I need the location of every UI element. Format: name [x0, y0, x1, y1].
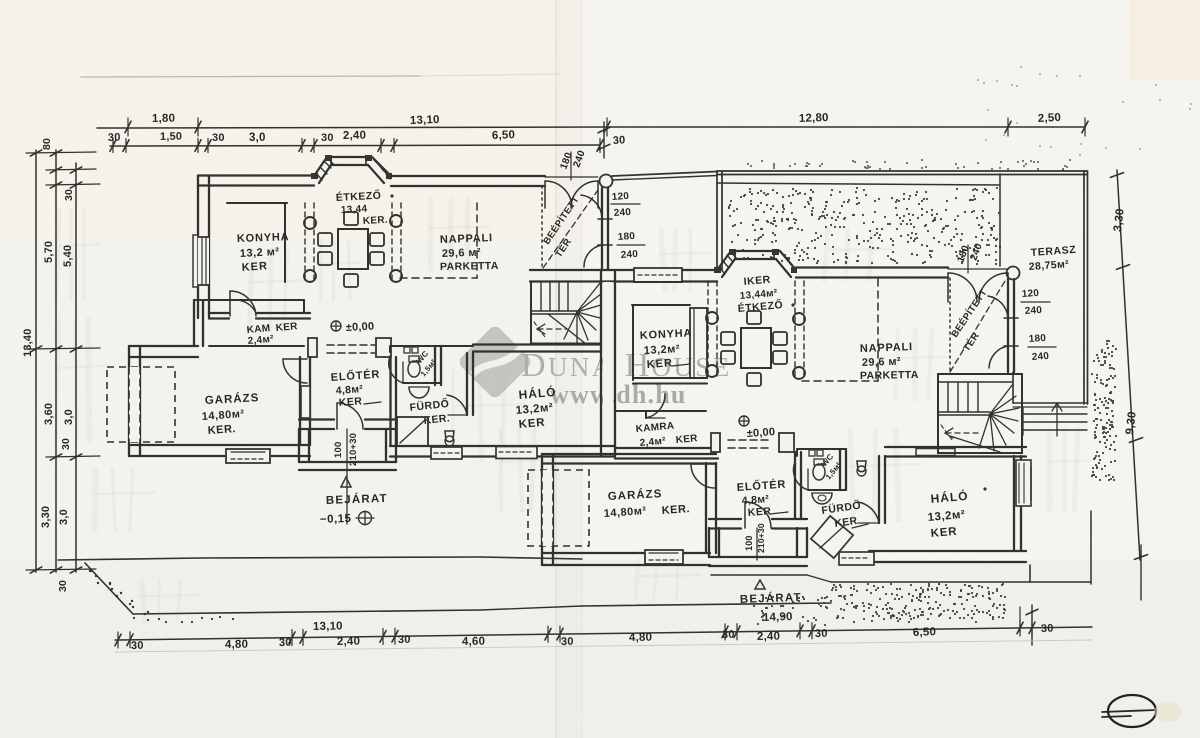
left unit conservatory dotted line	[541, 186, 543, 268]
plot boundary diagonal	[85, 563, 133, 614]
right unit wc fixtures	[809, 450, 815, 456]
left unit west outer wall	[197, 176, 199, 319]
right unit corridor dashed lines	[707, 281, 709, 379]
right unit conservatory door arcs	[988, 296, 1008, 318]
left unit dining table	[338, 229, 368, 269]
left unit kamra door arc	[233, 300, 256, 313]
left unit hall entry door	[336, 403, 338, 429]
right unit top wall east of bay	[796, 266, 948, 268]
right unit bedroom east window	[1016, 460, 1031, 506]
terrace east outer wall	[1083, 171, 1085, 404]
east path boundary	[1030, 581, 1091, 583]
left unit BEJARAT label	[341, 477, 351, 487]
right unit entry post	[1007, 267, 1020, 280]
left unit west window	[193, 235, 198, 287]
dimension chain left vertical lines	[35, 150, 37, 572]
right unit stairs winder fan	[990, 384, 1013, 414]
watermark logo swoosh	[470, 344, 522, 378]
left unit kitchen door	[229, 291, 231, 316]
right unit bedroom south window	[839, 552, 874, 565]
left unit conservatory window wall	[601, 188, 603, 270]
right unit stairs	[938, 374, 1022, 453]
right unit living dashed boundary	[877, 279, 879, 381]
left unit corridor dashed lines	[304, 203, 306, 281]
left unit garage niche	[301, 386, 310, 418]
left unit bay window	[314, 157, 391, 176]
bench on band wall	[634, 268, 682, 282]
ghost bleed-through marks	[56, 210, 59, 300]
right unit bay window	[717, 251, 796, 270]
dimension chain bottom	[115, 627, 1092, 640]
shared band wall between units	[530, 269, 717, 271]
paper crease	[556, 0, 582, 738]
bottom right logo ellipse	[1108, 695, 1156, 727]
left unit south outer wall	[390, 445, 615, 447]
left unit stairs winder fan	[577, 283, 600, 312]
stipple right of terrace wall	[1108, 474, 1110, 476]
right unit bedroom east wall	[1013, 456, 1015, 551]
right unit kitchen walls	[632, 304, 690, 306]
gap wall between units at top	[612, 172, 717, 177]
left unit wc door arc	[389, 356, 403, 383]
party wall between units	[600, 270, 602, 456]
right unit kitchen counter	[690, 308, 707, 378]
terrace south edge right part	[1013, 402, 1087, 404]
left unit top outer wall east segment	[391, 175, 545, 177]
left unit bath shower	[397, 417, 428, 446]
left unit bath washbasin	[409, 387, 429, 398]
left unit hall upper area pm 0,00	[331, 321, 341, 331]
left unit south windows	[431, 447, 462, 459]
left unit kitchen inner walls	[227, 202, 287, 204]
right unit bath toilet	[857, 461, 866, 472]
left unit bath door arc	[447, 395, 467, 415]
stipple bottom walkway right unit	[904, 607, 906, 609]
terrace steps	[1023, 413, 1087, 415]
left unit bath west wall	[389, 357, 391, 446]
terrace top outer wall	[717, 170, 1087, 172]
right unit dining table	[741, 328, 771, 368]
right unit french doors	[948, 268, 1008, 270]
dimension chain top line 2	[110, 145, 600, 146]
left unit porch walls	[298, 429, 300, 462]
right unit wc room	[797, 448, 846, 450]
left unit garage door arc to hall	[283, 358, 307, 360]
left unit dining chairs	[318, 233, 332, 246]
left unit bedroom top wall	[473, 343, 601, 345]
right unit bath door arc	[858, 502, 879, 523]
right unit bath west wall	[794, 452, 796, 519]
left unit lower wall of front rooms	[209, 312, 229, 314]
right unit pm 0,00	[739, 416, 749, 426]
left unit entry lower walls	[299, 418, 334, 420]
plot boundary line upper	[58, 558, 200, 560]
left unit dining dashed lines	[391, 203, 393, 281]
left unit bath toilet	[445, 431, 454, 442]
right unit bath shower diamond	[811, 516, 853, 558]
right unit wall below kamra	[615, 447, 718, 449]
left unit top outer wall west segment	[198, 174, 314, 176]
right unit stairs south wall	[885, 446, 1026, 448]
right unit porch walls	[708, 528, 710, 557]
bottom right dim stub	[1031, 605, 1033, 645]
left unit conservatory dashed diagonal	[543, 190, 598, 268]
terrace west wall	[716, 171, 718, 270]
right unit garage vent	[645, 550, 683, 564]
left unit stairs	[531, 282, 601, 344]
left unit stairs arrow	[538, 328, 567, 330]
right unit garage outer walls	[542, 453, 716, 455]
right unit kamra door arc	[646, 394, 665, 418]
right unit bath washbasin	[812, 493, 832, 504]
left unit wc room	[390, 345, 441, 347]
watermark duna house logo diamond	[457, 324, 533, 400]
dimension chain top line 1	[97, 127, 607, 128]
right unit kamra walls	[615, 410, 706, 412]
left unit entrance french doors	[545, 176, 598, 178]
left unit corridor posts	[304, 217, 316, 229]
right unit dining dashed lines	[794, 281, 796, 379]
right unit bath wall to bedroom	[878, 456, 880, 523]
right unit entry section line	[756, 528, 758, 560]
right unit entry lower walls	[709, 518, 741, 520]
left unit entry section line	[346, 429, 348, 524]
right unit garage door arc	[691, 463, 715, 465]
left unit wc fixtures	[404, 347, 410, 353]
right unit garage door dashed projection	[528, 470, 589, 546]
right unit BEJARAT label	[755, 580, 765, 589]
dimension 30 vertical at wall corner	[603, 122, 605, 158]
right unit hall wall stubs	[711, 433, 720, 452]
right unit conservatory window wall	[1007, 279, 1009, 372]
right unit bedroom south wall	[869, 550, 1026, 552]
right unit porch ground outline	[711, 574, 807, 576]
left unit conservatory door arcs	[581, 195, 602, 219]
plot boundary line lower	[133, 610, 480, 614]
terrace inner vertical line	[999, 174, 1001, 266]
left unit garage outer walls	[129, 345, 198, 347]
left unit garage vent	[226, 449, 270, 463]
left chain ticks	[30, 150, 41, 156]
right unit conservatory dashed diagonal	[950, 281, 1005, 372]
left unit hall dashed opening	[327, 344, 375, 346]
terrace stipple pattern area	[856, 237, 858, 239]
dimension chain right vertical	[1117, 170, 1140, 560]
terrace steps arrow	[1056, 404, 1058, 436]
right unit kitchen south wall	[633, 377, 707, 379]
stipple above terrace top wall	[864, 166, 866, 168]
right unit dining chairs	[721, 332, 735, 345]
right unit hall dashed opening	[728, 439, 772, 441]
left unit kamra walls	[194, 299, 304, 301]
right unit hall entry door	[744, 502, 746, 528]
left unit garage door dashed projection	[107, 367, 175, 442]
left unit living room dashed boundary	[476, 203, 478, 278]
right unit southeast ground lines	[831, 581, 1030, 583]
plot boundary dots	[90, 570, 92, 572]
left unit entry post	[600, 175, 613, 188]
left unit bath wall to bedroom	[466, 353, 468, 415]
right unit stairs arrow	[946, 432, 980, 434]
right unit wc door arc	[793, 462, 808, 490]
right unit conservatory dotted line	[949, 278, 951, 372]
left unit hall wall stubs	[308, 338, 317, 357]
